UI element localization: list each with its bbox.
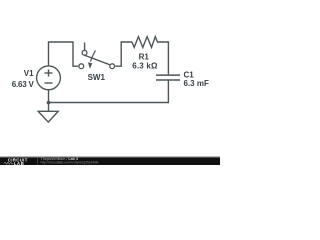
svg-text:6.63 V: 6.63 V: [12, 80, 35, 89]
svg-text:LAB: LAB: [14, 161, 25, 165]
svg-text:R1: R1: [139, 53, 150, 62]
svg-text:6.3 kΩ: 6.3 kΩ: [132, 61, 158, 70]
svg-text:6.3 mF: 6.3 mF: [184, 79, 209, 88]
svg-text:SW1: SW1: [88, 73, 106, 82]
svg-text:V1: V1: [24, 69, 34, 78]
svg-text:http://circuitlab.com/c/5yw2q3: http://circuitlab.com/c/5yw2q35yb69b: [41, 161, 99, 165]
